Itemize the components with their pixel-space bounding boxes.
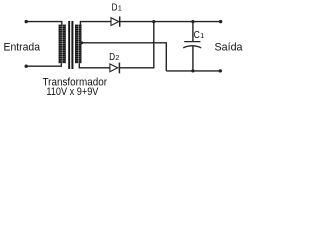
- wire center tap: [81, 43, 166, 71]
- node dot input bottom: [25, 65, 28, 68]
- wire bottom rail: [166, 70, 220, 72]
- wire D2 to top rail: [119, 22, 153, 68]
- diode D1: [111, 16, 120, 26]
- wire top rail D1 to output: [120, 21, 221, 23]
- transformer T1 primary winding: [59, 25, 66, 64]
- wire C1 bottom lead: [192, 46, 194, 71]
- node dot center tap: [81, 41, 84, 44]
- svg-text:110V x 9+9V: 110V x 9+9V: [46, 86, 99, 98]
- wire secondary top to D1: [80, 22, 111, 25]
- svg-text:Entrada: Entrada: [4, 42, 41, 54]
- node dot C1 junction on bottom rail: [191, 69, 194, 72]
- transformer T1 secondary winding: [75, 25, 81, 64]
- wire secondary bottom to D2: [79, 63, 110, 68]
- transformer T1 core: [68, 21, 73, 69]
- node dot input top: [25, 20, 28, 23]
- wire C1 top lead: [192, 22, 194, 42]
- svg-text:1: 1: [200, 31, 204, 40]
- svg-text:1: 1: [118, 4, 122, 13]
- capacitor C1: [183, 42, 201, 48]
- wire primary bottom: [26, 63, 61, 66]
- wire primary top: [26, 22, 62, 25]
- node dot output top: [219, 20, 222, 23]
- node dot D2 junction on top rail: [152, 20, 155, 23]
- node dot C1 junction on top rail: [191, 20, 194, 23]
- svg-text:2: 2: [115, 53, 119, 62]
- svg-text:Saída: Saída: [215, 42, 244, 54]
- node dot output bottom: [219, 69, 222, 72]
- diode D2: [110, 63, 120, 74]
